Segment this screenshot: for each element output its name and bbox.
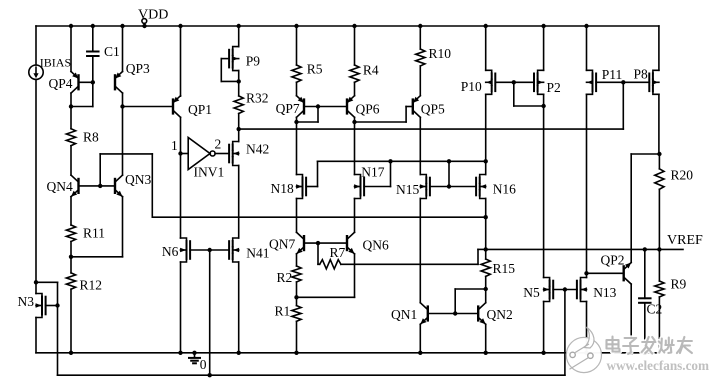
svg-text:N18: N18 — [271, 181, 294, 196]
svg-text:R11: R11 — [83, 226, 105, 241]
svg-text:QP4: QP4 — [49, 76, 73, 91]
svg-text:QN7: QN7 — [269, 237, 295, 252]
svg-text:N16: N16 — [493, 182, 516, 197]
svg-text:P9: P9 — [246, 53, 261, 68]
svg-text:1: 1 — [171, 138, 178, 153]
svg-text:R12: R12 — [80, 277, 103, 292]
svg-text:C2: C2 — [647, 302, 663, 317]
svg-text:QP6: QP6 — [356, 102, 380, 117]
svg-text:QN6: QN6 — [363, 238, 389, 253]
svg-text:QN2: QN2 — [487, 307, 513, 322]
svg-text:R10: R10 — [429, 46, 452, 61]
svg-text:R7: R7 — [330, 245, 346, 260]
svg-text:P10: P10 — [461, 79, 482, 94]
svg-text:VDD: VDD — [138, 8, 168, 23]
svg-text:R32: R32 — [246, 91, 269, 106]
svg-text:QP5: QP5 — [421, 102, 445, 117]
svg-text:R9: R9 — [671, 277, 687, 292]
svg-text:QP7: QP7 — [276, 101, 300, 116]
svg-text:R5: R5 — [307, 61, 323, 76]
svg-text:R20: R20 — [671, 168, 694, 183]
svg-text:R1: R1 — [275, 304, 291, 319]
svg-text:N42: N42 — [246, 141, 269, 156]
svg-text:QN1: QN1 — [391, 307, 417, 322]
svg-text:R4: R4 — [363, 63, 379, 78]
svg-text:R15: R15 — [493, 261, 516, 276]
svg-text:P11: P11 — [602, 67, 623, 82]
svg-text:N13: N13 — [593, 285, 616, 300]
svg-text:R2: R2 — [277, 270, 293, 285]
svg-text:VREF: VREF — [667, 233, 703, 248]
svg-text:IBIAS: IBIAS — [40, 56, 71, 70]
svg-text:R8: R8 — [83, 130, 99, 145]
svg-text:N15: N15 — [396, 182, 419, 197]
svg-text:P8: P8 — [634, 67, 649, 82]
svg-text:N6: N6 — [162, 244, 179, 259]
svg-text:INV1: INV1 — [194, 165, 225, 180]
svg-text:www.elecfans.com: www.elecfans.com — [607, 358, 710, 373]
svg-text:QN4: QN4 — [47, 179, 73, 194]
svg-text:N3: N3 — [18, 294, 35, 309]
svg-text:QP1: QP1 — [188, 102, 212, 117]
svg-text:N5: N5 — [523, 285, 540, 300]
svg-text:N17: N17 — [361, 165, 384, 180]
svg-text:QP2: QP2 — [601, 253, 625, 268]
svg-text:QP3: QP3 — [126, 61, 150, 76]
svg-text:N41: N41 — [246, 245, 269, 260]
svg-text:2: 2 — [215, 137, 222, 152]
svg-text:0: 0 — [200, 357, 207, 372]
svg-text:QN3: QN3 — [125, 172, 151, 187]
svg-text:C1: C1 — [104, 44, 120, 59]
svg-text:P2: P2 — [547, 80, 561, 95]
